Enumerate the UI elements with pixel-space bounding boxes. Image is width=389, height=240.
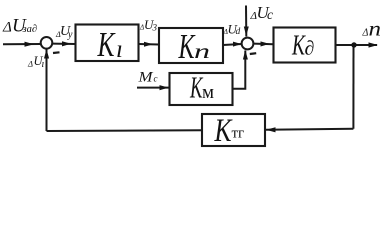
- svg-text:d: d: [236, 27, 241, 37]
- svg-text:M: M: [137, 70, 154, 86]
- svg-text:тг: тг: [232, 126, 245, 142]
- svg-text:за∂: за∂: [22, 24, 38, 35]
- svg-text:Δ: Δ: [27, 59, 33, 69]
- svg-text:∂: ∂: [305, 38, 315, 60]
- svg-text:n: n: [369, 17, 382, 41]
- svg-text:ı: ı: [42, 59, 45, 70]
- svg-text:м: м: [202, 82, 214, 103]
- svg-text:c: c: [154, 74, 158, 84]
- svg-text:K: K: [214, 113, 233, 149]
- svg-text:K: K: [97, 25, 116, 64]
- svg-text:п: п: [194, 39, 210, 63]
- svg-text:K: K: [178, 27, 196, 66]
- svg-text:ı: ı: [116, 36, 123, 63]
- svg-text:3: 3: [152, 23, 158, 33]
- svg-text:Δ: Δ: [2, 19, 12, 35]
- svg-text:c: c: [267, 7, 273, 22]
- svg-text:у: у: [67, 30, 73, 41]
- svg-text:Δ: Δ: [362, 28, 369, 39]
